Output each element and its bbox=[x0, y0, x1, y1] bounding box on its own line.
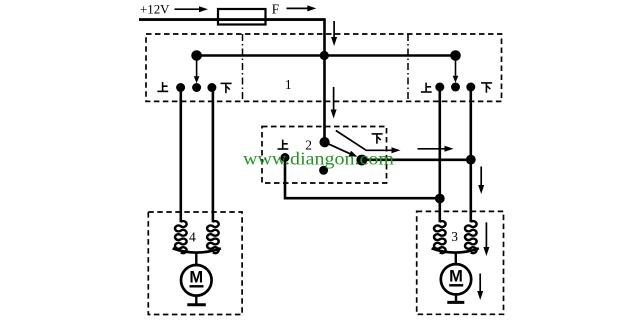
label xia (down) left box bbox=[221, 83, 232, 93]
wire W5 left DOWN contact down to motor 4 right coil bbox=[212, 88, 215, 223]
coil L3b bbox=[465, 221, 477, 253]
wire W12 coil bottoms connector motor 3 bbox=[432, 248, 479, 252]
switch S2 contact DOWN dot bbox=[356, 155, 367, 166]
flow arrow A9 inside box 3 lower bbox=[477, 274, 483, 301]
flow arrow A6 toward right junction bbox=[418, 146, 454, 152]
ground motor 4 bbox=[187, 296, 206, 305]
switch SW-R contact UP dot bbox=[435, 83, 444, 92]
svg-text:1: 1 bbox=[285, 77, 292, 92]
coil L4b bbox=[207, 221, 219, 253]
wire W1 +12V supply horizontal bbox=[139, 18, 325, 21]
switch SW-L pivot dot bbox=[191, 50, 202, 61]
switch SW-R pivot dot bbox=[450, 50, 461, 61]
svg-text:M: M bbox=[189, 269, 203, 287]
wire W7 right DOWN contact down to motor 3 right coil bbox=[469, 87, 472, 222]
flow arrow A7 down below junction J2 bbox=[478, 167, 484, 195]
motor M4 circle bbox=[181, 265, 212, 296]
label shang (up) left box bbox=[157, 82, 168, 91]
svg-text:M: M bbox=[449, 268, 463, 286]
motor M4 underline bbox=[190, 285, 204, 287]
switch 2 dashed box bbox=[262, 127, 387, 184]
wire W4 left UP contact down to motor 4 left coil bbox=[180, 88, 183, 223]
svg-text:4: 4 bbox=[189, 229, 196, 244]
wire W9 switch 2 DOWN contact right to motor 3 right wire bbox=[362, 159, 471, 162]
junction J3 on right UP wire bbox=[435, 194, 445, 204]
svg-text:+12V: +12V bbox=[140, 3, 170, 17]
motor M3 underline bbox=[449, 284, 463, 286]
motor box 4 dashed bbox=[148, 212, 242, 315]
flow arrow A8 inside box 3 upper bbox=[483, 222, 489, 256]
svg-text:F: F bbox=[272, 1, 279, 16]
switch S2 blade arrow to DOWN contact bbox=[325, 142, 358, 156]
flow arrow A4 crossing box 1 bottom edge bbox=[331, 87, 337, 119]
switch SW-R contact DOWN dot bbox=[466, 83, 475, 92]
motor box 3 dashed bbox=[417, 211, 504, 314]
switch SW-R actuating arrow bbox=[453, 57, 459, 83]
divider dash-dot left bbox=[242, 34, 244, 101]
wire W13 down to motor 3 bbox=[455, 252, 457, 264]
label xia (down) box 2 bbox=[372, 134, 383, 144]
ground motor 3 bbox=[447, 295, 464, 303]
flow arrow A1 after +12V bbox=[175, 6, 209, 12]
coil L3a bbox=[434, 221, 446, 253]
relay enclosure dashed box (top) bbox=[146, 34, 502, 101]
label xia (down) right box bbox=[481, 83, 492, 93]
wire W6 right UP contact down to motor 3 left coil bbox=[438, 87, 441, 222]
flow arrow A2 after F bbox=[287, 5, 317, 11]
switch SW-R contact MID dot bbox=[451, 83, 460, 92]
switch SW-L contact MID dot bbox=[192, 83, 201, 92]
divider dash-dot right bbox=[407, 34, 409, 101]
wire W11 down to motor 4 bbox=[195, 252, 197, 265]
switch SW-L contact DOWN dot bbox=[207, 83, 216, 92]
flow arrow A5 through DOWN contact of switch 2 bbox=[336, 131, 401, 154]
coil L4a bbox=[175, 221, 187, 253]
switch SW-L actuating arrow bbox=[194, 57, 200, 83]
svg-text:3: 3 bbox=[451, 229, 458, 244]
wire W3 bus between switch pivots bbox=[197, 54, 456, 56]
svg-text:www.diangon.com: www.diangon.com bbox=[243, 148, 394, 168]
switch S2 contact UP dot bbox=[281, 153, 290, 162]
wire W10 coil bottoms connector motor 4 bbox=[173, 248, 221, 252]
junction J1 on bus at feed wire bbox=[320, 51, 329, 60]
switch S2 pivot dot bbox=[319, 137, 329, 147]
wire W8 switch 2 UP contact down then right to motor 3 left wire bbox=[285, 158, 440, 199]
label shang (up) right box bbox=[421, 83, 432, 92]
motor M3 circle bbox=[441, 264, 471, 294]
flow arrow A3 down beside feed wire bbox=[331, 21, 337, 46]
switch S2 contact MID dot bbox=[319, 166, 328, 175]
junction J2 on right DOWN wire bbox=[466, 155, 476, 165]
fuse F bbox=[218, 9, 266, 25]
wire W2 vertical feed down to switch 2 pivot bbox=[139, 20, 325, 143]
label shang (up) box 2 bbox=[278, 140, 289, 149]
switch SW-L contact UP dot bbox=[176, 83, 185, 92]
